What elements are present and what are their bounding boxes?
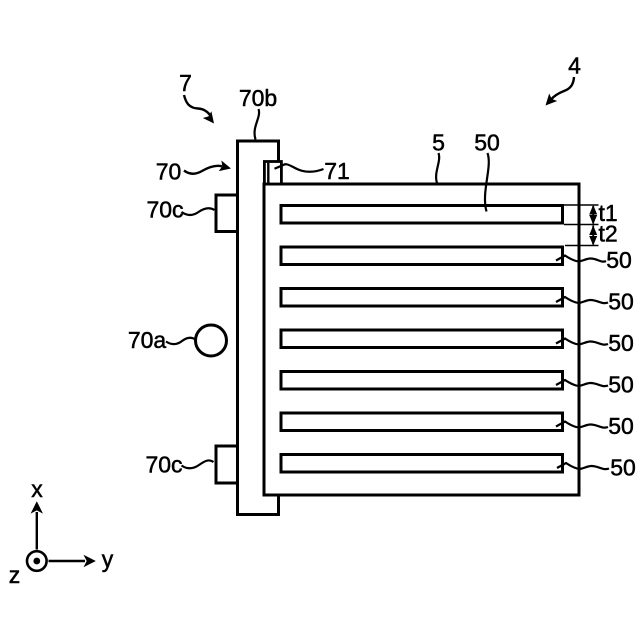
substrate 5 (large rectangle) <box>264 184 579 495</box>
svg-text:50: 50 <box>610 455 636 481</box>
electrode bar 50 #7 <box>281 455 563 473</box>
electrode bar 50 #4 <box>281 330 563 348</box>
leader 50 bar7 <box>557 463 609 469</box>
arrow from 70 <box>184 161 231 174</box>
electrode bar 50 #6 <box>281 413 563 431</box>
z axis symbol (circle with dot) <box>27 551 47 571</box>
svg-text:50: 50 <box>608 372 634 398</box>
svg-text:70: 70 <box>156 159 182 185</box>
svg-text:70a: 70a <box>128 327 167 353</box>
svg-text:50: 50 <box>608 289 634 315</box>
coordinate axes <box>9 476 114 588</box>
arrow from 7 <box>184 95 214 124</box>
svg-text:70c: 70c <box>146 197 183 223</box>
terminal 70c bottom <box>216 446 238 483</box>
extension line at bar1 top <box>564 204 599 206</box>
leader from 70c bottom <box>182 460 214 468</box>
dimension arrow t2 <box>589 226 597 246</box>
svg-text:z: z <box>9 562 21 588</box>
svg-text:y: y <box>102 546 114 572</box>
extension line at bar2 top <box>565 245 599 247</box>
leader from 70c top <box>182 208 215 215</box>
tab 71 (small rectangle) <box>264 162 281 185</box>
svg-text:t2: t2 <box>599 221 618 247</box>
leader from 70b <box>255 109 260 140</box>
svg-text:70c: 70c <box>145 452 182 478</box>
electrode bar 50 #5 <box>281 372 563 390</box>
extension line at bar1 bottom <box>564 224 599 226</box>
leader 50 bar2 <box>556 256 606 262</box>
svg-text:70b: 70b <box>239 85 277 111</box>
leader 50 bar5 <box>556 380 608 386</box>
svg-text:5: 5 <box>432 130 445 156</box>
electrode bar 50 #2 <box>281 247 563 265</box>
leader from 5 <box>436 153 439 183</box>
svg-text:50: 50 <box>474 130 500 156</box>
tab 71 inner edge <box>267 163 269 184</box>
leader 50 bar4 <box>556 339 608 345</box>
hole 70a (circle) <box>196 325 227 356</box>
leader from 71 <box>275 164 324 172</box>
electrode bar 50 #3 <box>281 289 563 307</box>
arrow from 4 <box>546 77 575 106</box>
dimension arrow t1 <box>589 205 597 225</box>
leader from 50 top <box>485 153 489 212</box>
x axis arrow <box>36 512 38 550</box>
leader 50 bar6 <box>556 422 608 428</box>
svg-text:7: 7 <box>179 70 192 96</box>
svg-text:x: x <box>31 476 43 502</box>
svg-text:50: 50 <box>608 413 634 439</box>
leader from 70a <box>166 338 196 344</box>
svg-text:71: 71 <box>324 158 350 184</box>
y axis arrow <box>49 560 86 562</box>
svg-text:50: 50 <box>608 330 634 356</box>
svg-text:4: 4 <box>568 53 581 79</box>
busbar body 70 (vertical bar) <box>238 141 279 515</box>
svg-text:50: 50 <box>606 247 632 273</box>
terminal 70c top <box>216 195 238 232</box>
electrode bar 50 #1 <box>281 206 563 224</box>
leader 50 bar3 <box>556 297 608 303</box>
